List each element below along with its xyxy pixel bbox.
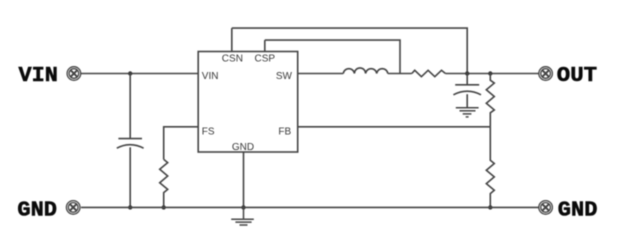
wire ground rail bbox=[81, 206, 539, 208]
svg-text:GND: GND bbox=[17, 199, 57, 222]
wire FB pin to divider bbox=[298, 126, 491, 128]
terminal GND right bbox=[539, 201, 553, 215]
svg-text:CSN: CSN bbox=[222, 54, 243, 65]
wire SW pin to inductor bbox=[298, 73, 344, 75]
op-amp U1 (regulator IC box) bbox=[198, 52, 298, 153]
resistor R1 (divider upper) bbox=[486, 74, 494, 127]
resistor R5 (current sense) bbox=[412, 70, 446, 76]
node IC GND junction bbox=[241, 205, 245, 209]
svg-text:CSP: CSP bbox=[255, 54, 276, 65]
wire VIN terminal to IC VIN pin bbox=[81, 73, 198, 75]
svg-text:OUT: OUT bbox=[557, 65, 597, 88]
node divider bottom junction bbox=[488, 205, 492, 209]
node VIN/C1 junction bbox=[128, 71, 132, 75]
wire sense resistor to OUT node bbox=[445, 73, 539, 75]
pin CSN stub bbox=[231, 28, 233, 51]
svg-text:SW: SW bbox=[276, 71, 293, 82]
capacitor C1 (input) bbox=[117, 74, 144, 208]
resistor R2 (divider lower) bbox=[486, 127, 494, 208]
svg-text:FB: FB bbox=[278, 127, 291, 138]
wire FS pin bbox=[164, 127, 199, 160]
node FS resistor bottom bbox=[162, 205, 166, 209]
svg-text:GND: GND bbox=[232, 142, 254, 153]
svg-text:VIN: VIN bbox=[202, 71, 219, 82]
pin CSP stub bbox=[264, 40, 266, 51]
node divider top junction bbox=[488, 71, 492, 75]
capacitor C2 (output) bbox=[453, 74, 481, 108]
terminal OUT bbox=[539, 67, 553, 81]
wire inductor to sense resistor bbox=[388, 73, 412, 75]
svg-text:VIN: VIN bbox=[19, 65, 58, 88]
node CSN/C2 junction bbox=[465, 71, 469, 75]
ground (IC GND) bbox=[231, 207, 254, 225]
resistor R3 (FS set) bbox=[160, 159, 168, 207]
ground (output cap) bbox=[456, 108, 479, 117]
inductor L1 bbox=[343, 68, 388, 74]
terminal VIN bbox=[67, 67, 81, 81]
wire CSP to inductor/resistor node bbox=[265, 40, 400, 73]
svg-text:GND: GND bbox=[558, 200, 598, 223]
wire CSN to SW output node bbox=[232, 28, 467, 73]
svg-text:FS: FS bbox=[202, 127, 215, 138]
pin GND stub bbox=[243, 152, 245, 207]
node C1/ground rail junction bbox=[128, 205, 132, 209]
terminal GND left bbox=[66, 201, 80, 215]
